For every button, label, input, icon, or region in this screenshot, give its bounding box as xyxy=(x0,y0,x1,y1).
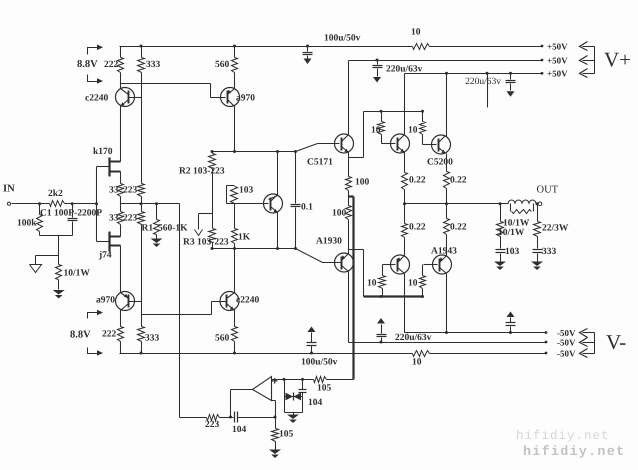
svg-text:k170: k170 xyxy=(93,147,113,157)
svg-text:+50V: +50V xyxy=(547,42,568,52)
svg-text:2k2: 2k2 xyxy=(48,189,63,199)
svg-text:223: 223 xyxy=(123,214,138,224)
svg-text:333: 333 xyxy=(146,60,161,70)
svg-text:+50V: +50V xyxy=(547,69,568,79)
svg-text:100k: 100k xyxy=(17,219,37,229)
svg-text:R3 103-223: R3 103-223 xyxy=(183,238,229,248)
svg-text:0.22: 0.22 xyxy=(409,176,426,186)
svg-text:223: 223 xyxy=(205,420,220,430)
svg-text:10/1W: 10/1W xyxy=(503,219,530,229)
svg-text:22/3W: 22/3W xyxy=(542,224,569,234)
svg-text:10: 10 xyxy=(367,279,377,289)
svg-text:A1930: A1930 xyxy=(316,237,342,247)
svg-text:0.22: 0.22 xyxy=(450,176,467,186)
svg-text:10: 10 xyxy=(411,28,421,38)
svg-text:220u/63v: 220u/63v xyxy=(395,333,432,343)
svg-text:100u/50v: 100u/50v xyxy=(301,358,338,368)
svg-text:10/1W: 10/1W xyxy=(498,228,525,238)
svg-text:A1943: A1943 xyxy=(431,247,457,257)
svg-text:j74: j74 xyxy=(98,251,112,261)
svg-text:333: 333 xyxy=(145,334,160,344)
svg-text:104: 104 xyxy=(232,425,247,435)
svg-text:hifidiy.net: hifidiy.net xyxy=(516,429,610,443)
svg-text:33: 33 xyxy=(109,214,119,224)
svg-text:560: 560 xyxy=(215,334,230,344)
svg-text:10: 10 xyxy=(408,279,418,289)
svg-text:a970: a970 xyxy=(236,94,255,104)
svg-text:-50V: -50V xyxy=(557,338,576,348)
svg-text:R2 103-223: R2 103-223 xyxy=(179,167,225,177)
svg-text:105: 105 xyxy=(317,384,332,394)
svg-text:220u/63v: 220u/63v xyxy=(386,65,423,75)
svg-text:100P-2200P: 100P-2200P xyxy=(54,209,102,219)
svg-text:V-: V- xyxy=(606,330,626,354)
svg-text:100u/50v: 100u/50v xyxy=(324,34,361,44)
svg-text:0.1: 0.1 xyxy=(301,203,313,213)
svg-text:100: 100 xyxy=(332,209,347,219)
svg-text:222: 222 xyxy=(104,60,119,70)
svg-text:0.22: 0.22 xyxy=(450,223,467,233)
svg-text:C1: C1 xyxy=(40,209,52,219)
svg-text:100: 100 xyxy=(355,178,370,188)
svg-text:10/1W: 10/1W xyxy=(64,269,91,279)
svg-text:hifidiy.net: hifidiy.net xyxy=(523,445,625,460)
svg-text:8.8V: 8.8V xyxy=(77,59,98,70)
svg-text:104: 104 xyxy=(308,398,323,408)
svg-text:10: 10 xyxy=(408,126,418,136)
svg-text:103: 103 xyxy=(505,247,520,257)
svg-text:a970: a970 xyxy=(96,296,115,306)
svg-text:560-1K: 560-1K xyxy=(158,224,188,234)
svg-text:R1: R1 xyxy=(142,224,154,234)
svg-text:C5200: C5200 xyxy=(427,158,453,168)
svg-text:-50V: -50V xyxy=(557,328,576,338)
svg-text:+50V: +50V xyxy=(547,56,568,66)
svg-text:+: + xyxy=(272,376,278,388)
svg-text:1K: 1K xyxy=(238,233,251,243)
svg-text:-50V: -50V xyxy=(557,349,576,359)
svg-text:OUT: OUT xyxy=(537,185,559,196)
svg-text:C5171: C5171 xyxy=(307,158,333,168)
svg-text:10: 10 xyxy=(412,358,422,368)
svg-text:333: 333 xyxy=(542,247,557,257)
svg-text:c2240: c2240 xyxy=(85,94,108,104)
svg-text:c2240: c2240 xyxy=(236,296,259,306)
svg-text:103: 103 xyxy=(239,186,254,196)
svg-text:105: 105 xyxy=(279,430,294,440)
svg-text:33: 33 xyxy=(109,186,119,196)
svg-text:0.22: 0.22 xyxy=(409,223,426,233)
svg-text:220u/63v: 220u/63v xyxy=(465,77,501,87)
svg-text:10: 10 xyxy=(371,126,381,136)
svg-text:8.8V: 8.8V xyxy=(70,330,91,341)
svg-text:222: 222 xyxy=(102,330,117,340)
svg-text:IN: IN xyxy=(3,184,15,195)
svg-text:560: 560 xyxy=(215,60,230,70)
svg-text:V+: V+ xyxy=(604,48,631,72)
svg-text:223: 223 xyxy=(123,186,138,196)
